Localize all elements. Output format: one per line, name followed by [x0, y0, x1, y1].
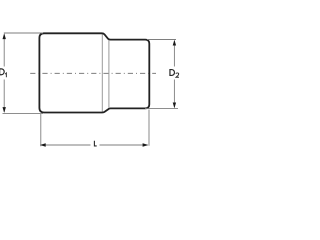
D1 extension line top — [4, 32, 43, 34]
socket neck contour line right — [108, 40, 110, 107]
center line — [30, 72, 156, 74]
D2 label subscript — [176, 73, 179, 77]
L dimension line right — [100, 144, 148, 146]
socket outline — [39, 33, 149, 112]
D2 dimension line upper — [173, 41, 175, 67]
D1 arrow down — [3, 107, 6, 113]
D1 dimension line lower — [3, 80, 5, 113]
D2 arrow up — [173, 40, 176, 46]
L label — [94, 141, 96, 146]
D2 extension line top — [147, 39, 176, 41]
L arrow right — [143, 143, 149, 146]
D2 arrow down — [173, 103, 176, 109]
L extension line right — [148, 110, 150, 146]
D1 extension line bottom — [3, 113, 44, 115]
L dimension line left — [42, 144, 91, 146]
L extension line left — [40, 114, 42, 146]
L arrow left — [40, 143, 46, 146]
D2 dimension line lower — [173, 80, 175, 108]
D1 label subscript — [5, 73, 6, 77]
D1 label — [0, 69, 4, 75]
D1 dimension line upper — [3, 35, 5, 67]
D2 label — [170, 70, 175, 76]
socket body contour line left — [101, 34, 103, 112]
D1 arrow up — [3, 33, 6, 39]
D2 extension line bottom — [145, 108, 178, 110]
